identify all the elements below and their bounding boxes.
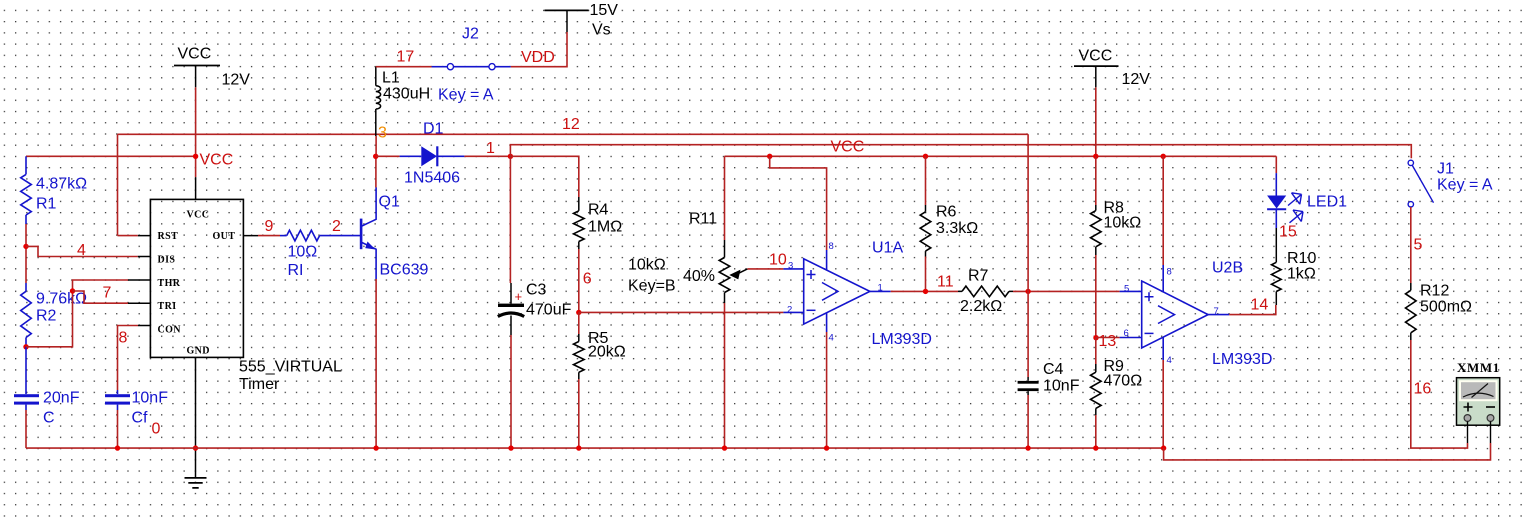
wire VCC to U1A pin8 [770,156,827,250]
wire net 5 [1410,207,1412,283]
capacitor C3 470uF polarized [498,281,572,335]
wire R4 bottom to node 6 [578,249,580,312]
svg-text:BC639: BC639 [380,261,429,278]
wire node 6 to R5 top [578,312,580,334]
wire net 12 to RST [118,235,138,237]
svg-text:GND: GND [187,346,210,357]
junction rail R9 [1093,445,1098,450]
svg-text:D1: D1 [423,120,444,137]
svg-text:5: 5 [1414,236,1423,253]
svg-text:3: 3 [378,124,387,141]
potentiometer R11 10k 40% [628,210,747,303]
junction VCC [193,154,198,159]
svg-text:12: 12 [562,116,580,133]
svg-text:CON: CON [158,325,182,336]
junction rail C4 [1025,445,1030,450]
svg-text:12V: 12V [1122,71,1151,88]
resistor R5 20k [574,312,626,379]
junction rail R5 [576,445,581,450]
svg-text:R1: R1 [36,195,57,212]
wire net 6 to U1A pin2 [579,311,784,313]
junction VCC to R6 [923,154,928,159]
junction net 13 [1093,335,1098,340]
instrument XMM1 multimeter [1457,360,1500,443]
junction rail C3 [508,445,513,450]
wire U2B pin4 to rail 0 [1162,360,1164,448]
svg-text:40%: 40% [683,268,715,285]
resistor R7 2.2k [958,267,1013,315]
svg-text:470Ω: 470Ω [1104,372,1143,389]
svg-text:13: 13 [1099,333,1117,350]
svg-text:VCC: VCC [178,45,212,62]
junction net 7 bottom [23,344,28,349]
wire net 8 CON to Cf [118,326,139,391]
555 VCC pin stub [195,177,197,199]
wire R6 bottom to net 11 [925,257,927,292]
svg-text:20kΩ: 20kΩ [588,343,626,360]
svg-text:555_VIRTUAL: 555_VIRTUAL [239,358,342,375]
svg-text:430uH: 430uH [383,85,430,102]
svg-text:LM393D: LM393D [1212,351,1272,368]
wire VCC to R6 top [925,156,927,205]
svg-text:20nF: 20nF [43,389,80,406]
junction net 11 R6 [923,289,928,294]
svg-text:Key=B: Key=B [628,277,676,294]
wire net 11 [891,290,958,292]
svg-text:4: 4 [829,333,834,344]
wire net 7 THR branch [26,280,128,347]
wire net 12 riser [117,134,119,235]
op-amp U1A LM393D [783,239,932,347]
svg-text:2: 2 [787,305,792,316]
svg-text:Key = A: Key = A [1437,176,1493,193]
wire R5 bottom to rail 0 [578,379,580,448]
svg-text:4: 4 [77,242,86,259]
wire node 1 to C3 [509,156,511,283]
wire net 7 TRI branch [73,291,129,303]
svg-text:8: 8 [1167,267,1172,278]
svg-text:0: 0 [152,420,161,437]
wire net VCC rail [725,155,1277,157]
svg-text:Timer: Timer [239,376,280,393]
svg-text:RI: RI [288,262,304,279]
svg-text:DIS: DIS [158,255,176,266]
svg-text:R2: R2 [36,307,57,324]
svg-text:2: 2 [332,218,341,235]
wire VCC to R8 [1095,156,1097,205]
diode D1 1N5406 [400,120,465,186]
wire net VCC horizontal to R1 [26,155,196,157]
svg-text:15: 15 [1279,223,1297,240]
resistor R9 470 [1091,338,1143,416]
wire net 4 to DIS [26,246,138,256]
svg-text:4.87kΩ: 4.87kΩ [36,175,87,192]
junction net 12 [1025,289,1030,294]
wire net 9 [258,235,280,237]
wire node 1 to R4 [510,156,578,197]
svg-text:C4: C4 [1043,361,1064,378]
svg-text:11: 11 [937,273,954,290]
svg-text:VCC: VCC [187,210,210,221]
svg-text:Vs: Vs [592,21,611,38]
junction net 6 [576,310,581,315]
svg-text:TRI: TRI [158,301,177,312]
wire net 0 to XMM1 - [1164,443,1491,460]
svg-text:12V: 12V [222,71,251,88]
svg-text:1MΩ: 1MΩ [588,218,622,235]
svg-text:XMM1: XMM1 [1457,360,1500,375]
wire D1 to node 1 [464,155,510,157]
svg-text:500mΩ: 500mΩ [1420,298,1472,315]
junction net 4 [23,244,28,249]
svg-text:9: 9 [265,218,274,235]
capacitor Cf 10nF [105,389,168,426]
svg-text:17: 17 [397,48,415,65]
wire L1 to node 3 [375,136,377,156]
resistor R12 500m [1406,282,1473,340]
wire net 16 to XMM1 + [1411,340,1468,448]
svg-text:6: 6 [1124,328,1129,339]
ground symbol [185,478,207,488]
power VCC 12V supply (right) [1074,47,1150,88]
svg-text:4: 4 [1167,355,1172,366]
svg-text:R6: R6 [936,203,957,220]
svg-text:10: 10 [769,251,787,268]
junction VCC to U1A pin8 [767,154,772,159]
junction rail Q1 [373,445,378,450]
svg-text:L1: L1 [382,69,400,86]
resistor R8 10k [1091,199,1142,337]
wire VCC to LED1 [1275,156,1277,173]
svg-text:U1A: U1A [872,239,903,256]
svg-text:J1: J1 [1437,160,1454,177]
wire node 3 to D1 [376,155,400,157]
wire R11 bottom to rail 0 [724,303,726,448]
wire net 17 [376,66,432,68]
wire R8 bottom to net 13 [1095,255,1097,338]
svg-text:RST: RST [158,231,179,242]
wire net 12 to C4 [1027,291,1029,377]
junction VCC supply [1093,154,1098,159]
transistor Q1 BC639 [361,187,428,279]
svg-text:10kΩ: 10kΩ [1104,214,1142,231]
junction VCC to U2B pin8 [1161,154,1166,159]
wire C bottom to rail 0 [25,410,27,448]
resistor R10 1k [1272,228,1317,305]
wire C3 bottom to rail 0 [510,335,512,448]
svg-text:9.76kΩ: 9.76kΩ [36,290,87,307]
svg-text:LED1: LED1 [1307,193,1347,210]
svg-text:LM393D: LM393D [872,331,932,348]
wire net VDD [511,32,567,67]
svg-text:C: C [43,409,55,426]
wire R9 bottom to rail 0 [1095,415,1097,448]
svg-text:5: 5 [1124,284,1129,295]
wire net 12 drop [1027,134,1029,291]
svg-text:1kΩ: 1kΩ [1287,265,1316,282]
wire net 12 top rail [118,133,1029,135]
svg-text:Cf: Cf [132,409,149,426]
junction GND on rail 0 [193,445,198,450]
power VCC 12V supply (left) [174,45,250,88]
resistor R6 3.3k [920,203,978,291]
svg-text:VCC: VCC [831,138,865,155]
wire net 1 top rail to J1 [510,145,1411,159]
svg-text:7: 7 [1214,306,1219,317]
junction rail R11 [722,445,727,450]
wire net 0 rail [26,447,1164,449]
junction net 3 [373,154,378,159]
svg-text:1N5406: 1N5406 [404,169,460,186]
wire net 10 wiper to U1A [747,268,783,270]
svg-text:R12: R12 [1420,282,1449,299]
svg-text:R10: R10 [1287,250,1316,267]
IC 555_VIRTUAL timer box [128,199,342,392]
power Vs 15V supply [545,2,619,39]
svg-text:R11: R11 [689,210,717,227]
svg-text:8: 8 [119,329,128,346]
capacitor C4 10nF [1018,361,1080,395]
resistor R2 9.76k [21,283,87,347]
svg-text:R4: R4 [588,201,609,218]
inductor L1 430uH [376,67,430,136]
svg-text:470uF: 470uF [526,301,572,318]
svg-text:Q1: Q1 [379,193,400,210]
resistor RI 10ohm [280,230,361,278]
svg-text:10Ω: 10Ω [288,243,318,260]
555 GND pin wire [195,357,197,478]
svg-text:Key = A: Key = A [438,86,494,103]
wire C4 bottom to rail 0 [1027,395,1029,448]
resistor R1 4.87k [21,156,87,224]
switch J2 [432,25,511,103]
wire VCC right supply down [1095,87,1097,156]
svg-text:8: 8 [829,241,834,252]
svg-text:R7: R7 [968,267,989,284]
svg-text:7: 7 [103,284,112,301]
svg-text:C3: C3 [526,281,547,298]
resistor R4 1M [574,197,623,312]
junction rail Cf [115,445,120,450]
svg-text:J2: J2 [462,25,479,42]
svg-text:6: 6 [583,270,592,287]
wire net 14 [1229,305,1276,315]
svg-text:3.3kΩ: 3.3kΩ [936,220,978,237]
wire VCC supply to 555 VCC pin [195,87,197,177]
svg-text:10nF: 10nF [1043,377,1080,394]
svg-text:1: 1 [878,283,883,294]
wire R1 bottom to R2 top [25,224,27,283]
junction rail U1A [824,445,829,450]
wire Q1 emitter to rail 0 [375,279,377,448]
op-amp U2B LM393D [1120,259,1273,368]
wire net 13 to U2B pin6 [1096,337,1120,339]
svg-text:1: 1 [486,140,495,157]
svg-text:2.2kΩ: 2.2kΩ [960,298,1002,315]
svg-text:15V: 15V [590,2,619,19]
wire VCC to U2B pin8 [1162,156,1164,265]
svg-text:U2B: U2B [1212,259,1243,276]
svg-text:10nF: 10nF [132,389,169,406]
switch J1 [1408,160,1493,207]
wire Cf bottom to rail 0 [117,410,119,448]
svg-text:16: 16 [1414,380,1432,397]
svg-text:10kΩ: 10kΩ [628,256,666,273]
wire net 13 to R9 top [1095,338,1097,365]
capacitor C 20nF [14,347,80,427]
wire net 12 R7 to U2B pin5 [1013,290,1120,292]
LED LED1 [1267,173,1347,228]
wire U1A pin4 to rail 0 [826,332,828,448]
svg-text:VDD: VDD [521,49,555,66]
wire VCC to R11 top [724,156,726,240]
svg-text:+: + [515,289,523,304]
svg-text:14: 14 [1251,296,1269,313]
svg-text:VCC: VCC [200,151,234,168]
wire node 3 to Q1 collector [375,156,377,187]
svg-text:THR: THR [158,278,181,289]
junction net 7 [70,288,75,293]
junction net 1 [508,154,513,159]
svg-text:OUT: OUT [213,231,236,242]
svg-text:3: 3 [788,261,793,272]
junction rail U2B [1161,445,1166,450]
svg-text:VCC: VCC [1079,47,1113,64]
